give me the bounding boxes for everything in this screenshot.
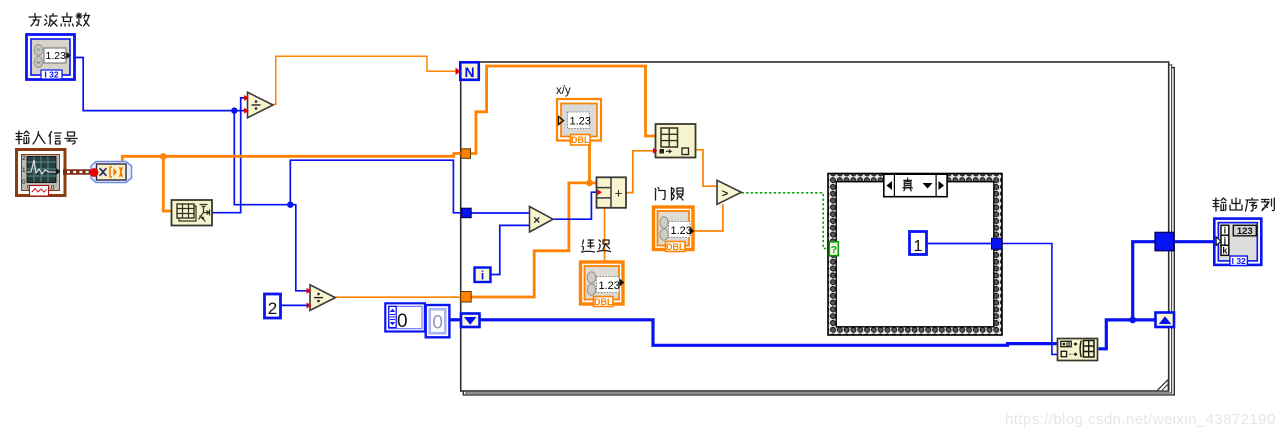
svg-text:DBL: DBL: [594, 297, 613, 307]
wire: fangbo control to divide1 and tunnels (blue I32 net): [75, 58, 462, 291]
control menxian (DBL): [654, 207, 695, 252]
wire: constant 2 to divide2: [281, 304, 308, 306]
wire: divide1 out to N terminal (orange): [273, 56, 456, 104]
svg-text:1: 1: [22, 167, 26, 174]
left shift register (down arrow): [461, 314, 480, 328]
wire: "2"/divide2 output to tunnel B (orange): [335, 296, 461, 298]
svg-text:1: 1: [914, 238, 923, 255]
zero array constant: index spinner: [385, 303, 425, 332]
label shuruxinhao (input signal): [16, 131, 77, 144]
index array node: [653, 124, 696, 158]
multiply node: [530, 207, 554, 233]
control fangbodianshu (I32 numeric control): [27, 35, 75, 80]
case constant 1: [910, 232, 927, 256]
for loop N border: [461, 62, 1169, 391]
label yanchi (delay): [582, 240, 611, 252]
wire: big tunnel to output indicator (blue thick): [1174, 240, 1216, 243]
svg-text:+: +: [615, 186, 623, 201]
junction dot orange: [160, 153, 167, 160]
svg-text:N: N: [464, 64, 474, 80]
wire: greater out to case selector ? (green dotted boolean): [742, 193, 830, 249]
label shuchuxulie (output sequence): [1213, 198, 1274, 211]
compound plus node: [597, 177, 627, 208]
control yanchi (DBL): [581, 262, 625, 307]
array size node: [172, 200, 213, 226]
indicator shuchuxulie (I32 array): [1214, 219, 1261, 266]
wire: blue tunnel to multiply: [471, 212, 530, 214]
svg-text:i: i: [1224, 226, 1227, 236]
divide node 1: [244, 92, 273, 118]
case structure border: [828, 174, 1002, 336]
svg-text:×: ×: [533, 213, 540, 227]
svg-text:?: ?: [831, 244, 837, 256]
svg-text:1.23: 1.23: [46, 50, 67, 62]
svg-text:1.23: 1.23: [599, 280, 620, 292]
wire: left shift register along bottom to build array (blue thick): [479, 320, 1058, 346]
branch into array size input: [163, 156, 172, 211]
svg-text:0: 0: [22, 179, 26, 186]
svg-text:DBL: DBL: [666, 242, 685, 252]
indicator x/y (DBL): [557, 99, 601, 145]
wire: index array out to greater node (orange): [695, 150, 717, 186]
svg-text:123: 123: [1237, 226, 1253, 237]
svg-text:I 32: I 32: [44, 70, 58, 80]
wire: menxian control to greater node (orange): [694, 204, 723, 231]
case blue tunnel: [992, 238, 1003, 249]
divide node 2: [307, 285, 336, 311]
wire: delay control to plus node (orange): [604, 208, 606, 261]
big blue tunnel (array out): [1155, 232, 1174, 251]
wire: build array out to shift register and big tunnel (blue thick): [1099, 320, 1156, 349]
svg-text:i: i: [481, 269, 484, 283]
wire: input signal converted array (orange thick) to tunnel A: [122, 154, 461, 163]
svg-text:2: 2: [22, 155, 26, 162]
junction dot at divide1 input: [231, 107, 237, 113]
svg-text:>: >: [722, 188, 728, 200]
svg-text:DBL: DBL: [571, 135, 590, 145]
greater-than node: [717, 180, 741, 204]
wire: zero array constant to left shift register (blue thick): [451, 318, 462, 321]
N count terminal: [456, 62, 479, 80]
wire: array size out to divide1 top input (blue): [212, 98, 246, 213]
svg-text:1.23: 1.23: [671, 225, 692, 237]
svg-text:x/y: x/y: [556, 85, 571, 97]
label menxian (threshold): [655, 188, 683, 201]
wire: tunnel B up to x/y and plus node (orange thick): [471, 183, 597, 297]
wire: multiply out to plus node (blue): [553, 192, 597, 219]
svg-text:0: 0: [432, 313, 443, 334]
control shuruxinhao (waveform chart): [17, 150, 66, 197]
wire: i terminal to multiply: [491, 225, 530, 274]
dynamic data dashed wire: [63, 167, 100, 176]
svg-text:I 32: I 32: [1232, 256, 1246, 266]
orange tunnel A: [461, 149, 471, 159]
for loop border shadow: [463, 65, 1174, 395]
svg-text:https://blog.csdn.net/weixin_4: https://blog.csdn.net/weixin_43872190: [1005, 411, 1276, 428]
build array node: [1058, 339, 1098, 361]
label fangbodianshu (square wave points): [29, 13, 90, 26]
i iteration terminal: [475, 268, 491, 283]
svg-text:0: 0: [397, 311, 408, 332]
blue tunnel (N value into loop): [462, 208, 472, 218]
wire: case constant 1 to case tunnel (blue): [927, 243, 992, 245]
right shift register (up arrow): [1156, 313, 1175, 328]
convert from dynamic data express node: [90, 162, 132, 183]
orange tunnel B: [461, 292, 472, 303]
svg-text:j: j: [1223, 236, 1227, 246]
svg-text:1.23: 1.23: [570, 116, 591, 128]
junction dot at branch: [287, 202, 293, 208]
loop resize corner: [1158, 380, 1169, 391]
wire: tunnel A routed inside loop to Index Array (orange thick): [470, 66, 656, 154]
case selector label: [884, 174, 947, 197]
case selector ? terminal: [829, 242, 838, 256]
svg-text:2: 2: [268, 299, 277, 318]
wire: case tunnel to build array lower input (blue): [1002, 244, 1058, 355]
constant 2: [265, 294, 281, 318]
zero array constant: element: [426, 305, 450, 337]
wire: plus out to index array index input (orange): [626, 151, 656, 193]
